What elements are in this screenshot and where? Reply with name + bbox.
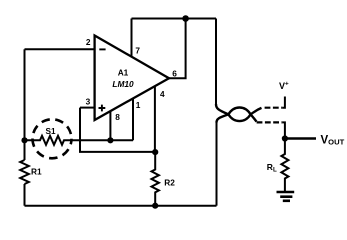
wire right vertical from bottom rail up to twisted pair: [216, 123, 218, 206]
svg-text:2: 2: [86, 37, 91, 47]
node junction dot: output to top rail: [182, 15, 189, 22]
wire pin3 stub (non-inverting input): [80, 107, 95, 109]
op-amp A1 LM10 triangle: [95, 36, 169, 121]
wire pin 8 (from op-amp bottom edge down to junction): [109, 111, 111, 140]
resistor RL: [281, 139, 288, 193]
dashed wire top (to V+): [265, 107, 283, 109]
svg-text:4: 4: [160, 89, 165, 99]
svg-text:A1: A1: [118, 68, 129, 78]
svg-text:6: 6: [172, 68, 177, 78]
svg-text:LM10: LM10: [112, 79, 134, 89]
node junction dot: R2 bottom on bottom rail: [152, 203, 158, 209]
bottom rail wire: [25, 205, 217, 207]
wire pin 6 output (apex right, then up to top rail): [169, 19, 186, 79]
wire VOUT output stub: [285, 137, 316, 139]
wire pin 7 vertical to top rail: [131, 19, 133, 57]
wire pin 1 (from op-amp bottom edge down, corner to junction): [132, 98, 134, 140]
node junction dot: left rail / S1 left lead: [21, 137, 27, 143]
svg-text:1: 1: [136, 100, 141, 110]
svg-text:VOUT: VOUT: [321, 135, 345, 147]
wire corner down to VOUT node: [282, 122, 285, 138]
node junction dot: R2 top: [152, 149, 158, 155]
wire pin 4 (from op-amp bottom edge down to R2 top node): [154, 86, 156, 152]
wire pin2 input (top-left horizontal to inverting input): [25, 48, 95, 50]
op-amp minus sign: [99, 48, 105, 50]
top rail wire: [132, 18, 217, 20]
resistor R2: [152, 152, 159, 206]
wire left rail (vertical, pin2 corner down to R1 top): [24, 49, 26, 160]
dashed wire bottom (to VOUT node): [257, 121, 283, 123]
svg-text:S1: S1: [46, 127, 56, 136]
wire pin3 vertical down and across to R2 top: [80, 108, 155, 152]
svg-text:V+: V+: [279, 80, 289, 90]
svg-text:7: 7: [135, 45, 140, 55]
op-amp plus sign: [99, 105, 106, 112]
sensor S1 dashed circle: [33, 119, 72, 158]
node junction dot: VOUT: [282, 135, 288, 141]
svg-text:R2: R2: [164, 178, 175, 188]
twisted pair strand B (bottom-left to bottom-right): [217, 108, 257, 123]
twisted pair strand A (top-left to top-right): [216, 104, 262, 121]
wire corner up to V+ terminal: [282, 97, 285, 108]
resistor element inside S1 (horizontal zigzag): [25, 136, 134, 145]
svg-text:RL: RL: [267, 162, 277, 174]
node junction dot: pin8 wire on S1 output line: [107, 137, 113, 143]
ground symbol: [277, 191, 295, 194]
svg-text:R1: R1: [31, 167, 42, 177]
svg-text:3: 3: [86, 96, 91, 106]
wire R1 bottom to bottom rail: [24, 184, 26, 206]
resistor R1: [20, 160, 29, 184]
wire right vertical from top rail down to twisted pair: [215, 19, 217, 105]
svg-text:8: 8: [115, 112, 120, 122]
